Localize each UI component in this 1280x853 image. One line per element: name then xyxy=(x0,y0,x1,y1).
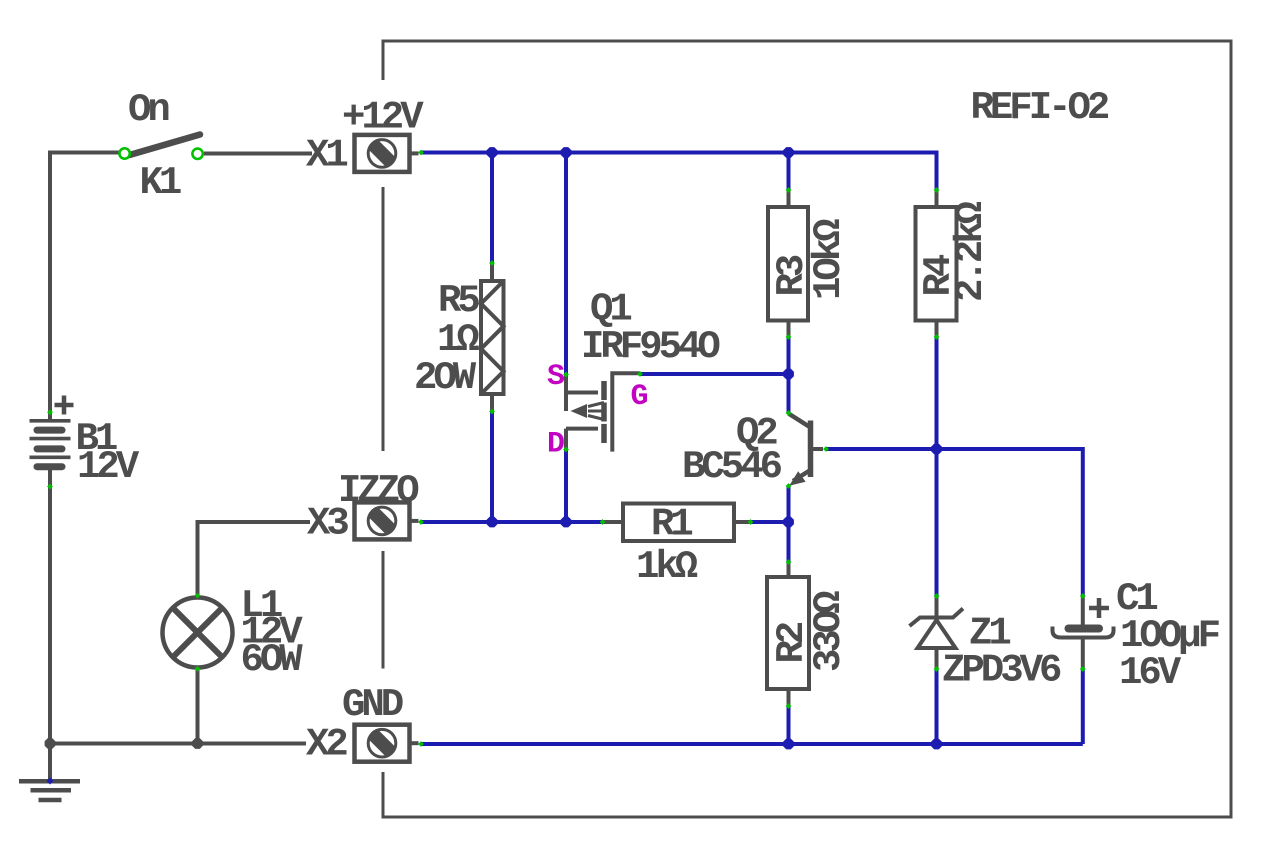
svg-text:D: D xyxy=(547,428,565,462)
node X2 pin xyxy=(418,741,424,747)
wire GND rail xyxy=(421,742,1083,746)
junction GND/Z1 xyxy=(931,739,942,750)
wire battery bottom to gnd rail xyxy=(48,467,52,744)
junction +12V/R3 xyxy=(783,147,794,158)
wire Z1 bottom xyxy=(935,669,939,744)
svg-text:2OW: 2OW xyxy=(414,356,477,400)
svg-text:K1: K1 xyxy=(140,161,181,205)
svg-text:ZPD3V6: ZPD3V6 xyxy=(942,649,1061,693)
enclosure box REFI-02 xyxy=(383,41,1231,817)
wire R5 column bottom xyxy=(490,412,494,523)
junction IZZO/Q1 xyxy=(561,517,572,528)
battery B1 xyxy=(30,396,74,467)
wire R2 bottom xyxy=(787,706,791,744)
svg-text:33OΩ: 33OΩ xyxy=(807,591,851,672)
wire R3 bottom to gate node xyxy=(787,337,791,413)
svg-text:IZZO: IZZO xyxy=(338,469,419,513)
wire IZZO row right xyxy=(751,520,789,524)
svg-text:G: G xyxy=(631,380,649,414)
svg-text:+12V: +12V xyxy=(342,96,424,140)
junction gray at gnd xyxy=(45,738,56,749)
svg-text:1kΩ: 1kΩ xyxy=(636,545,698,589)
wire lamp bottom xyxy=(196,669,200,744)
junction gate/R3 xyxy=(783,369,794,380)
svg-text:S: S xyxy=(547,360,565,394)
terminal X1 xyxy=(355,135,419,172)
transistor Q2 BC546 xyxy=(789,414,824,482)
svg-text:R1: R1 xyxy=(651,503,692,547)
node battery pins xyxy=(47,409,53,415)
resistor R1 xyxy=(603,504,751,542)
wire C1 bottom xyxy=(1081,669,1085,744)
wire Q1 source column xyxy=(564,153,568,375)
diode Z1 ZPD3V6 xyxy=(910,596,964,669)
wire gnd symbol drop xyxy=(48,744,52,781)
terminal X2 xyxy=(355,725,419,762)
resistor R3 xyxy=(768,190,808,337)
wire battery top to switch xyxy=(50,153,119,422)
svg-text:12V: 12V xyxy=(77,445,140,489)
lamp L1 xyxy=(163,598,233,668)
junction base/Z1 xyxy=(931,444,942,455)
wire lamp top to X3 xyxy=(198,522,311,596)
wire switch to X1 xyxy=(204,152,312,156)
wire IZZO node to R2 xyxy=(787,522,791,562)
wire base row to C1 xyxy=(826,449,1083,596)
wire gnd rail xyxy=(50,742,306,746)
junction +12V/Q1 xyxy=(561,147,572,158)
ground xyxy=(19,781,80,800)
junction dots blue xyxy=(487,147,942,749)
wire R4 bottom to Z1 xyxy=(935,337,939,596)
capacitor C1 xyxy=(1053,596,1114,669)
svg-text:On: On xyxy=(128,88,169,132)
svg-text:X3: X3 xyxy=(307,502,348,546)
junction GND/R2 xyxy=(783,739,794,750)
wire R5 column top xyxy=(490,153,494,264)
svg-text:REFI-O2: REFI-O2 xyxy=(971,86,1109,130)
svg-text:BC546: BC546 xyxy=(682,445,782,489)
resistor R5 xyxy=(481,263,504,412)
gray wires (battery / switch / lamp nets) xyxy=(50,153,312,781)
svg-text:GND: GND xyxy=(342,683,403,727)
node X3 pin xyxy=(418,519,424,525)
transistor Q1 IRF9540 xyxy=(566,373,640,451)
junction gray at lamp xyxy=(192,738,203,749)
svg-text:6OW: 6OW xyxy=(241,638,304,682)
junction IZZO/R5 xyxy=(487,517,498,528)
wire +12V rail xyxy=(421,153,937,191)
svg-text:16V: 16V xyxy=(1119,651,1182,695)
terminal X3 xyxy=(355,502,419,539)
node gnd attach xyxy=(47,778,54,785)
resistor R4 xyxy=(916,190,957,337)
svg-text:2.2kΩ: 2.2kΩ xyxy=(949,201,993,302)
node X1 pin xyxy=(418,150,424,156)
junction +12V/R5 xyxy=(487,147,498,158)
wire IZZO row left xyxy=(421,520,603,524)
svg-text:X2: X2 xyxy=(306,723,347,767)
wire Q1 drain column xyxy=(564,450,568,523)
wire Q2 emitter to IZZO row xyxy=(787,486,791,522)
switch K1 xyxy=(130,135,201,156)
wire R3 top stub xyxy=(787,153,791,191)
svg-text:1OkΩ: 1OkΩ xyxy=(807,219,851,300)
svg-text:X1: X1 xyxy=(306,134,347,178)
svg-text:IRF954O: IRF954O xyxy=(581,325,720,369)
wire gate row xyxy=(640,372,789,376)
resistor R2 xyxy=(767,562,809,706)
junction IZZO/R2 xyxy=(783,517,794,528)
svg-text:R5: R5 xyxy=(438,279,479,323)
blue nets xyxy=(421,153,1083,745)
